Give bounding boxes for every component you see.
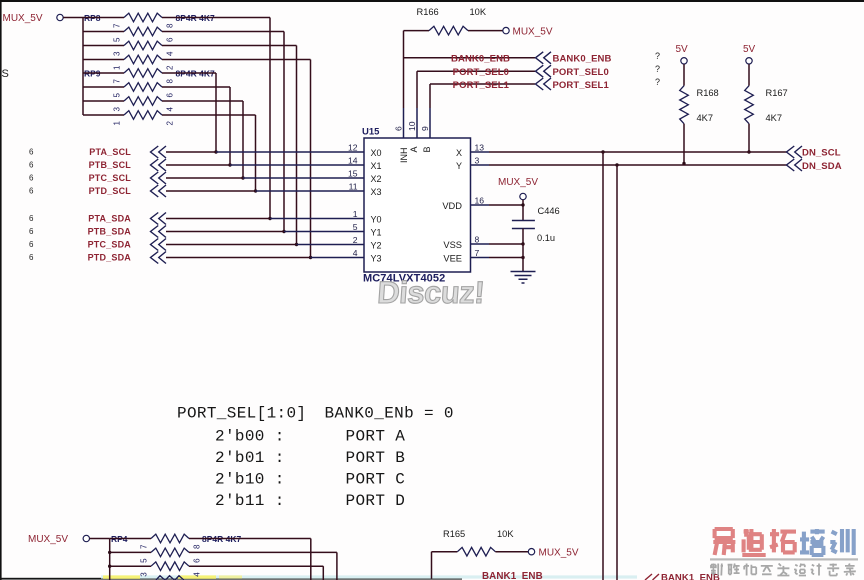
resistor RP9.3 (pins 3-4) xyxy=(83,100,124,102)
svg-text:6: 6 xyxy=(394,126,404,131)
wire VDD to MUX_5V and C446 xyxy=(489,204,523,206)
junction RP8.1/Y0 xyxy=(268,217,271,220)
wire DN_SDA riser down xyxy=(616,165,618,580)
svg-text:6: 6 xyxy=(29,161,34,170)
pin 2 Y2 xyxy=(345,244,364,246)
power terminal 5V (R167) xyxy=(746,58,752,64)
resistor R165 xyxy=(432,551,458,553)
wire RP4 left bus xyxy=(109,539,111,580)
svg-text:PORT A: PORT A xyxy=(346,427,406,445)
pin 11 X3 xyxy=(345,190,364,192)
svg-text:R167: R167 xyxy=(766,88,788,98)
pin 14 X1 xyxy=(345,164,364,166)
svg-text:Y1: Y1 xyxy=(371,228,382,238)
svg-text:3: 3 xyxy=(475,156,480,166)
IC U15 body MC74LVXT4052 xyxy=(364,138,471,272)
ground xyxy=(511,272,536,284)
wire RP4.1 down xyxy=(189,538,311,540)
wire RP9.1 to X0 xyxy=(162,72,216,74)
svg-text:6: 6 xyxy=(29,148,34,157)
svg-text:1: 1 xyxy=(113,65,122,70)
svg-text:2: 2 xyxy=(166,65,175,70)
resistor RP9.1 (pins 7-8) xyxy=(83,72,124,74)
svg-text:PORT_SEL[1:0]: PORT_SEL[1:0] xyxy=(177,404,306,422)
pin 15 X2 xyxy=(345,177,364,179)
svg-text:9: 9 xyxy=(420,126,430,131)
svg-text:2: 2 xyxy=(353,235,358,245)
svg-text:R166: R166 xyxy=(417,7,439,17)
svg-text:BANK0_ENb = 0: BANK0_ENb = 0 xyxy=(325,404,454,422)
wire riser to ground xyxy=(522,244,524,272)
svg-text:PTB_SCL: PTB_SCL xyxy=(89,160,132,170)
wire PTC_SCL to X2 xyxy=(166,177,243,179)
svg-text:MUX_5V: MUX_5V xyxy=(28,534,68,545)
wire VEE to riser xyxy=(489,257,523,259)
svg-text:C446: C446 xyxy=(538,206,560,216)
svg-text:5V: 5V xyxy=(676,44,689,55)
wire MUX_5V to RP bus xyxy=(63,17,83,19)
pin 3 Y xyxy=(471,164,490,166)
svg-text:PORT B: PORT B xyxy=(346,449,406,467)
svg-text:R165: R165 xyxy=(443,529,465,539)
svg-text:DN_SCL: DN_SCL xyxy=(802,148,841,159)
resistor RP8.4 (pins 1-2) xyxy=(83,59,124,61)
wire PTA_SDA to Y0 xyxy=(166,218,270,220)
junction R167/DN_SCL xyxy=(747,150,750,153)
wire DN_SCL riser down xyxy=(602,152,604,580)
svg-text:8: 8 xyxy=(166,79,175,84)
wire RP8.1 to Y0 xyxy=(162,17,270,19)
svg-text:5: 5 xyxy=(353,222,358,232)
svg-text:MUX_5V: MUX_5V xyxy=(498,177,538,188)
svg-text:5: 5 xyxy=(113,37,122,42)
svg-text:DN_SDA: DN_SDA xyxy=(802,161,842,172)
off-page connector PTC_SDA xyxy=(151,239,167,251)
terminal MUX_5V (VDD) xyxy=(520,193,526,199)
svg-text:5: 5 xyxy=(113,93,122,98)
svg-text:X2: X2 xyxy=(371,174,382,184)
svg-text:10K: 10K xyxy=(497,529,514,539)
page border left xyxy=(0,0,2,580)
pin 9 B xyxy=(429,108,431,138)
svg-text:PTA_SDA: PTA_SDA xyxy=(88,214,131,224)
svg-text:10K: 10K xyxy=(470,7,487,17)
svg-text:PORT_SEL0: PORT_SEL0 xyxy=(553,67,609,78)
off-page connector PTA_SCL xyxy=(151,146,167,158)
svg-text:?: ? xyxy=(655,64,660,74)
svg-text:14: 14 xyxy=(348,156,358,166)
svg-text:7: 7 xyxy=(140,544,149,549)
junction RP8.2/Y1 xyxy=(282,230,285,233)
wire DN_SDA xyxy=(489,164,787,166)
svg-text:S: S xyxy=(2,68,9,80)
svg-text:2'b11 :: 2'b11 : xyxy=(215,492,285,510)
junction RP9.2/X1 xyxy=(228,163,231,166)
wire MUX_5V to RP4 bus xyxy=(90,538,110,540)
svg-text:X0: X0 xyxy=(371,148,382,158)
resistor RP8.1 (pins 7-8) xyxy=(83,17,124,19)
junction DN_SCL riser xyxy=(601,150,604,153)
junction RP9.1/X0 xyxy=(214,150,217,153)
page border top xyxy=(0,0,864,2)
wire RP left bus xyxy=(82,18,84,116)
svg-text:A: A xyxy=(409,146,419,152)
off-page connector PORT_SEL0 xyxy=(536,65,552,77)
pin 5 Y1 xyxy=(345,231,364,233)
pin 13 X xyxy=(471,151,490,153)
resistor RP9.2 (pins 5-6) xyxy=(83,86,124,88)
svg-text:12: 12 xyxy=(348,143,358,153)
svg-text:0.1u: 0.1u xyxy=(537,233,555,243)
svg-text:6: 6 xyxy=(29,240,34,249)
svg-text:3: 3 xyxy=(113,107,122,112)
junction RP8.4/Y3 xyxy=(309,256,312,259)
junction VDD/C446 xyxy=(521,203,524,206)
resistor RP4.2 (pins 5-6) xyxy=(110,551,151,553)
svg-text:Y3: Y3 xyxy=(371,254,382,264)
resistor R167 xyxy=(748,64,750,86)
svg-text:PORT_SEL0: PORT_SEL0 xyxy=(453,67,509,78)
wire PTB_SCL to X1 xyxy=(166,164,230,166)
watermark subtitle 射频和天线设计专家 xyxy=(711,564,723,576)
svg-text:10: 10 xyxy=(407,121,417,131)
pin 7 VEE xyxy=(471,257,490,259)
svg-text:2'b10 :: 2'b10 : xyxy=(215,470,285,488)
svg-text:U15: U15 xyxy=(362,127,380,138)
off-page connector PTB_SCL xyxy=(151,159,167,171)
svg-text:VEE: VEE xyxy=(443,254,462,264)
svg-text:11: 11 xyxy=(349,182,358,192)
junction R168/DN_SDA xyxy=(682,162,685,165)
wire RP4.2 down xyxy=(189,551,337,553)
svg-text:6: 6 xyxy=(166,93,175,98)
svg-text:6: 6 xyxy=(29,214,34,223)
wire R165 to BANK1_ENB xyxy=(431,552,433,579)
svg-text:1: 1 xyxy=(113,121,122,126)
svg-text:6: 6 xyxy=(193,558,202,563)
resistor RP8.3 (pins 3-4) xyxy=(83,45,124,47)
pin 6 INH xyxy=(403,108,405,138)
junction RP4 bus row2 xyxy=(108,551,111,554)
watermark logo 易迪拓培训 xyxy=(713,529,735,555)
wire R166 to INH pin 6 xyxy=(403,31,405,108)
svg-text:7: 7 xyxy=(113,23,122,28)
highlight band yellow segments xyxy=(103,575,140,578)
capacitor C446 xyxy=(512,221,535,229)
svg-text:8: 8 xyxy=(193,544,202,549)
resistor RP8.2 (pins 5-6) xyxy=(83,31,124,33)
svg-text:7: 7 xyxy=(113,79,122,84)
svg-text:4: 4 xyxy=(166,51,175,56)
svg-text:6: 6 xyxy=(29,174,34,183)
svg-text:8: 8 xyxy=(166,23,175,28)
wire RP9.3 to X2 xyxy=(162,100,243,102)
svg-text:16: 16 xyxy=(475,196,485,206)
off-page connector BANK0_ENB xyxy=(536,52,552,64)
svg-text:BANK0_ENB: BANK0_ENB xyxy=(451,54,510,65)
junction RP4 bus row3 xyxy=(108,565,111,568)
svg-text:PTD_SDA: PTD_SDA xyxy=(88,253,132,263)
power terminal 5V (R168) xyxy=(681,58,687,64)
pin 10 A xyxy=(416,108,418,138)
svg-text:Y2: Y2 xyxy=(371,241,382,251)
wire RP4.3 down xyxy=(189,565,323,567)
svg-text:PTD_SCL: PTD_SCL xyxy=(89,186,132,196)
wire C446 to VSS row xyxy=(522,229,524,245)
pin 8 VSS xyxy=(471,243,490,245)
resistor R166 xyxy=(404,30,430,32)
svg-text:X3: X3 xyxy=(371,187,382,197)
wire RP8.4 to Y3 xyxy=(162,59,311,61)
svg-text:4: 4 xyxy=(166,107,175,112)
resistor R168 xyxy=(683,64,685,86)
off-page connector PTC_SCL xyxy=(151,172,167,184)
svg-text:INH: INH xyxy=(399,148,409,164)
wire PTA_SCL to X0 xyxy=(166,151,216,153)
junction VEE riser xyxy=(521,256,524,259)
junction RP9.4/X3 xyxy=(254,189,257,192)
svg-text:X: X xyxy=(456,148,462,158)
svg-text:4: 4 xyxy=(193,572,202,577)
wire DN_SCL xyxy=(489,151,787,153)
svg-text:?: ? xyxy=(655,77,660,87)
svg-text:R168: R168 xyxy=(697,88,719,98)
resistor RP4.3 (pins 3-4) xyxy=(110,565,151,567)
svg-text:7: 7 xyxy=(475,248,480,258)
wire PTB_SDA to Y1 xyxy=(166,231,284,233)
svg-text:PORT_SEL1: PORT_SEL1 xyxy=(553,80,610,91)
svg-text:3: 3 xyxy=(113,51,122,56)
svg-text:MUX_5V: MUX_5V xyxy=(513,27,553,38)
highlight band cyan xyxy=(101,575,637,578)
svg-text:PTA_SCL: PTA_SCL xyxy=(89,147,131,157)
svg-text:PTB_SDA: PTB_SDA xyxy=(88,227,132,237)
wire RP8.2 to Y1 xyxy=(162,31,284,33)
svg-text:PORT D: PORT D xyxy=(346,492,406,510)
off-page connector DN_SDA xyxy=(787,159,803,171)
svg-text:1: 1 xyxy=(353,209,358,219)
svg-text:6: 6 xyxy=(29,187,34,196)
terminal MUX_5V (RP4) xyxy=(83,535,89,541)
svg-text:MUX_5V: MUX_5V xyxy=(539,548,579,559)
svg-text:5V: 5V xyxy=(743,44,756,55)
wire PORT_SEL0 xyxy=(417,70,535,72)
terminal MUX_5V (top-left) xyxy=(57,14,63,20)
resistor RP4.1 (pins 7-8) xyxy=(110,538,151,540)
junction VSS/C446 xyxy=(521,242,524,245)
wire BANK0_ENB xyxy=(404,57,536,59)
wire RP9.4 to X3 xyxy=(162,114,256,116)
off-page connector DN_SCL xyxy=(787,146,803,158)
svg-text:6: 6 xyxy=(29,253,34,262)
pin 4 Y3 xyxy=(345,257,364,259)
junction RP9.3/X2 xyxy=(241,176,244,179)
svg-text:VSS: VSS xyxy=(443,240,462,250)
resistor RP4.4 partial zigzag at page bottom xyxy=(156,576,184,580)
svg-text:4: 4 xyxy=(353,248,358,258)
off-page connector BANK1_ENB xyxy=(645,574,659,580)
svg-text:VDD: VDD xyxy=(442,201,462,211)
svg-text:Y0: Y0 xyxy=(371,215,382,225)
terminal MUX_5V (R165) xyxy=(528,549,534,555)
svg-text:6: 6 xyxy=(166,37,175,42)
svg-text:X1: X1 xyxy=(371,161,382,171)
svg-text:BANK1_ENB: BANK1_ENB xyxy=(482,571,543,580)
svg-text:Discuz!: Discuz! xyxy=(376,275,485,310)
watermark divider line xyxy=(710,558,858,560)
off-page connector PTA_SDA xyxy=(151,213,167,225)
junction DN_SDA riser xyxy=(615,163,618,166)
junction RP8.3/Y2 xyxy=(295,243,298,246)
svg-text:2'b00 :: 2'b00 : xyxy=(215,427,285,445)
wire PTD_SDA to Y3 xyxy=(166,257,311,259)
page border bottom segment xyxy=(0,578,462,580)
svg-text:PTC_SDA: PTC_SDA xyxy=(88,240,132,250)
svg-text:B: B xyxy=(422,146,432,152)
svg-text:15: 15 xyxy=(348,169,358,179)
svg-text:2: 2 xyxy=(166,121,175,126)
svg-text:13: 13 xyxy=(475,143,485,153)
svg-text:6: 6 xyxy=(29,227,34,236)
off-page connector PTD_SCL xyxy=(151,185,167,197)
pin 12 X0 xyxy=(345,151,364,153)
terminal MUX_5V (R166) xyxy=(503,27,509,33)
wire RP8.3 to Y2 xyxy=(162,45,297,47)
svg-text:Y: Y xyxy=(456,161,462,171)
off-page connector PORT_SEL1 xyxy=(536,78,552,90)
wire VSS to riser xyxy=(489,243,523,245)
off-page connector PTB_SDA xyxy=(151,226,167,238)
svg-text:4K7: 4K7 xyxy=(697,113,714,123)
pin 1 Y0 xyxy=(345,218,364,220)
svg-text:4K7: 4K7 xyxy=(766,113,783,123)
resistor RP9.4 (pins 1-2) xyxy=(83,114,124,116)
svg-text:5: 5 xyxy=(140,558,149,563)
svg-text:?: ? xyxy=(655,51,660,61)
wire PORT_SEL1 xyxy=(430,83,535,85)
wire PTD_SCL to X3 xyxy=(166,190,256,192)
svg-text:8: 8 xyxy=(475,235,480,245)
svg-text:BANK0_ENB: BANK0_ENB xyxy=(553,54,612,65)
svg-text:PTC_SCL: PTC_SCL xyxy=(89,173,132,183)
off-page connector PTD_SDA xyxy=(151,252,167,264)
svg-text:PORT C: PORT C xyxy=(346,470,406,488)
svg-text:MUX_5V: MUX_5V xyxy=(3,13,43,24)
wire PTC_SDA to Y2 xyxy=(166,244,297,246)
svg-text:3: 3 xyxy=(140,572,149,577)
svg-text:2'b01 :: 2'b01 : xyxy=(215,449,285,467)
pin 16 VDD xyxy=(471,204,490,206)
wire RP9.2 to X1 xyxy=(162,86,230,88)
svg-text:PORT_SEL1: PORT_SEL1 xyxy=(453,80,510,91)
